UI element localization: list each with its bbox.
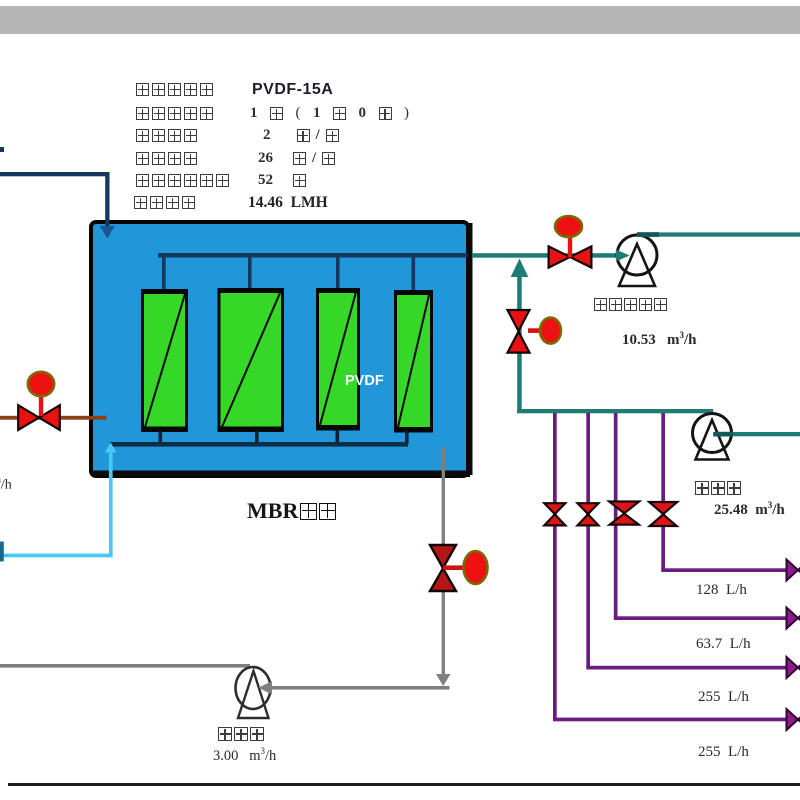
wire: backwash supply from right edge: [713, 432, 800, 437]
wire: cyan drain vertical: [109, 450, 113, 556]
wire: cyan drain horizontal to left edge: [0, 554, 113, 558]
wire: module 1 top stub: [162, 255, 166, 291]
spec table row 4: cassette size: [136, 152, 197, 165]
wire: dosing riser 1: [553, 413, 557, 719]
connector: dosing point 4 at right edge: [787, 560, 800, 581]
label: permeate flow value: [622, 330, 697, 349]
wire: module 4 bottom stub: [405, 431, 409, 444]
wire: feed inlet stub at left edge: [0, 147, 4, 152]
actuator of BV1: [540, 318, 561, 344]
label: dosing rate 63.7 L/h: [696, 636, 751, 653]
wire: feed line vertical drop: [105, 172, 109, 227]
membrane module M2: [218, 288, 285, 432]
label: partial flow value at left edge: [0, 476, 12, 494]
node: cyan drain edge connector: [0, 542, 4, 562]
spec table row 6: design flux: [134, 196, 195, 209]
valve SV1 (sludge drain): [430, 545, 464, 591]
connector: dosing point 3 at right edge: [787, 608, 800, 629]
actuator of PV1: [555, 216, 582, 237]
wire: mixed-liquor feed line (brown) at left: [0, 416, 107, 420]
wire: sludge pump outlet to left edge: [0, 664, 250, 668]
arrow: cyan drain out of header: [105, 443, 117, 453]
connector: dosing point 1 at right edge: [787, 709, 800, 730]
label: sludge flow value: [213, 746, 276, 765]
arrow: feed into tank: [100, 226, 115, 239]
wire: dosing branch 1 horizontal: [553, 718, 789, 722]
wire: top collection header (inside tank): [158, 253, 468, 258]
label: PVDF on module: [345, 373, 384, 389]
wire: module 2 top stub: [248, 255, 252, 291]
valve DV4 (dosing riser 4): [649, 502, 677, 526]
valve BV1 (backwash vertical): [508, 310, 542, 353]
valve DV1 (dosing riser 1): [544, 503, 565, 525]
wire: module 3 top stub: [336, 255, 340, 291]
arrow: backwash up into permeate line: [511, 259, 529, 278]
connector: dosing point 2 at right edge: [787, 657, 800, 678]
label: permeate suction pump: [594, 298, 667, 311]
spec table row 1: membrane model: [136, 83, 213, 96]
valve DV2 (dosing riser 2): [578, 503, 599, 525]
label: dosing rate 128 L/h: [696, 582, 747, 599]
wire: dosing riser 2: [586, 413, 590, 667]
spec table row 2: number of units: [136, 107, 213, 120]
label: MBR basin: [247, 498, 336, 524]
membrane module M4: [394, 290, 433, 433]
membrane module M3: [316, 288, 360, 431]
wire: backwash horizontal pipe: [517, 409, 713, 413]
wire: module 3 bottom stub: [336, 430, 340, 444]
tank MBR membrane basin: [91, 222, 473, 477]
wire: module 1 bottom stub: [159, 431, 163, 444]
wire: module 4 top stub: [412, 255, 416, 291]
pump P1 (permeate suction pump): [616, 235, 657, 286]
arrow: sludge drain into bottom pipe: [436, 674, 451, 686]
wire: feed line horizontal: [0, 172, 110, 176]
label: backwash flow value: [714, 500, 785, 519]
top gray banner: [0, 6, 800, 34]
wire: permeate pipe tank edge to pump: [472, 253, 630, 258]
membrane module M1: [141, 289, 188, 432]
wire: dosing branch 3 horizontal: [614, 616, 790, 620]
actuator of HV1: [28, 372, 54, 396]
label: dosing rate 255 L/h (branch 1): [698, 744, 749, 761]
bottom border line: [8, 783, 800, 786]
pump P2 (backwash pump): [693, 414, 732, 460]
actuator of SV1: [464, 551, 488, 584]
wire: module 2 bottom stub: [255, 431, 259, 444]
pump P3 (sludge discharge pump): [236, 667, 271, 718]
wire: sludge pipe horizontal (pump inlet): [262, 686, 450, 690]
label: sludge pump: [218, 727, 264, 741]
arrow: into sludge pump: [259, 681, 273, 695]
valve PV1 (permeate line, horizontal): [549, 237, 592, 268]
wire: sludge drain vertical from tank: [442, 447, 445, 677]
wire: dosing riser 3: [614, 413, 618, 618]
wire: dosing branch 2 horizontal: [586, 666, 789, 670]
wire: dosing riser 4: [661, 413, 665, 570]
label: backwash pump: [695, 481, 741, 495]
valve DV3 (dosing riser 3): [609, 502, 639, 525]
spec table row 5: total membrane elements: [136, 174, 229, 187]
spec table row 3: number of cassettes: [136, 129, 197, 142]
wire: backwash vertical pipe: [517, 273, 522, 413]
label: dosing rate 255 L/h (branch 2): [698, 689, 749, 706]
wire: permeate outlet to right edge: [637, 232, 800, 237]
wire: bottom collection header: [110, 442, 408, 447]
valve HV1 (feed, horizontal): [18, 395, 60, 430]
wire: dosing branch 4 horizontal: [661, 568, 789, 572]
